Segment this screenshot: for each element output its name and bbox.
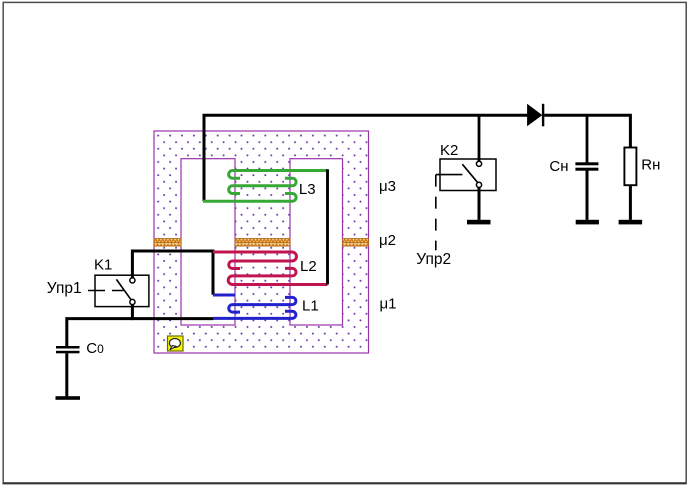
capacitor C0 <box>56 346 80 353</box>
svg-text:Упр2: Упр2 <box>416 251 451 268</box>
ground Rн <box>619 220 643 225</box>
note icon <box>168 336 184 351</box>
relay K1 box <box>95 275 149 306</box>
svg-text:μ2: μ2 <box>379 232 396 249</box>
wire C0 to ground <box>65 353 68 396</box>
relay K2 bottom contact <box>476 182 481 187</box>
air gap band μ2 central limb <box>235 239 290 247</box>
control dashed line Упр1 <box>88 290 124 292</box>
svg-text:Упр1: Упр1 <box>47 280 82 297</box>
relay K2 blade <box>462 164 477 182</box>
inductor L1 <box>213 295 296 318</box>
magnetic core body <box>154 131 369 353</box>
inductor L3 <box>203 171 327 202</box>
ground C0 <box>56 396 81 400</box>
wire K1 bottom to bottom rail <box>131 304 134 320</box>
svg-text:μ1: μ1 <box>380 296 397 313</box>
diode <box>527 104 544 127</box>
air gap band μ2 left limb <box>154 239 181 247</box>
svg-text:Сн: Сн <box>549 158 568 175</box>
air gap band μ2 right limb <box>343 239 369 247</box>
wire bottom rail from C0 to L1 lead <box>67 319 214 347</box>
inductor L2 <box>213 252 328 285</box>
svg-text:K2: K2 <box>440 142 458 159</box>
svg-text:L1: L1 <box>302 297 319 314</box>
relay K2 top contact <box>476 161 481 166</box>
svg-text:L3: L3 <box>299 181 316 198</box>
wire from diode to Rн top corner <box>544 115 630 148</box>
wire linking L3 top right to L2 bottom lead <box>326 169 329 284</box>
ground K2 <box>467 220 491 225</box>
relay K1 top contact <box>130 278 135 283</box>
core window right <box>290 159 343 325</box>
wire branch down to K2 <box>478 114 481 161</box>
relay K1 blade <box>116 279 130 299</box>
svg-text:C0: C0 <box>86 340 104 357</box>
wire Rн to ground <box>629 185 632 220</box>
control dashed line Упр2 <box>436 174 463 176</box>
svg-text:μ3: μ3 <box>379 178 396 195</box>
svg-text:L2: L2 <box>300 258 317 275</box>
svg-text:K1: K1 <box>94 257 112 274</box>
wire Сн to ground <box>586 171 589 220</box>
relay K1 bottom contact <box>130 299 135 304</box>
wire K1 top to node A (L2/L1 leads) <box>132 251 213 295</box>
wire K2 bottom to ground <box>478 188 481 220</box>
wire branch down to Сн <box>586 114 589 163</box>
relay K2 box <box>440 159 496 191</box>
wire from L3 top lead up and right to diode <box>204 115 528 201</box>
svg-text:Rн: Rн <box>641 157 660 174</box>
core window left <box>181 159 235 325</box>
resistor Rн <box>624 148 636 186</box>
ground Сн <box>576 220 599 225</box>
capacitor Сн <box>575 162 598 170</box>
